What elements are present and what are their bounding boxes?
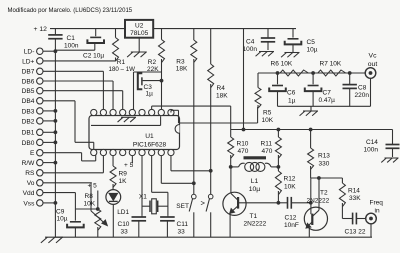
- svg-text:C8: C8: [358, 84, 367, 91]
- capacitor C1: [54, 29, 56, 35]
- node DB1 junction: [54, 130, 58, 134]
- svg-text:180 – 1W: 180 – 1W: [109, 66, 136, 73]
- wire +12 rail: [50, 28, 125, 30]
- wire Vo wiper: [90, 183, 92, 211]
- resistor R9: [112, 156, 114, 167]
- ground main: [45, 236, 63, 238]
- ground inside U1: [121, 116, 136, 118]
- svg-text:1µ: 1µ: [288, 97, 296, 104]
- svg-text:10µ: 10µ: [307, 47, 318, 54]
- svg-text:R10: R10: [237, 141, 249, 148]
- svg-text:DB4: DB4: [22, 98, 35, 105]
- wire SET link: [160, 156, 162, 184]
- wire R5 link: [170, 110, 172, 112]
- svg-text:>: >: [201, 198, 206, 207]
- resistor R13: [310, 130, 312, 149]
- node osc rail feed: [242, 128, 246, 132]
- svg-text:C11: C11: [177, 221, 189, 228]
- wire E route: [81, 153, 83, 161]
- svg-text:Vdd: Vdd: [23, 190, 35, 197]
- svg-text:Freq: Freq: [370, 199, 384, 206]
- wire RS route: [102, 156, 104, 173]
- svg-text:DB6: DB6: [22, 78, 35, 85]
- resistor R12: [277, 167, 279, 171]
- svg-text:10K: 10K: [284, 183, 296, 190]
- node SET junction: [192, 181, 196, 185]
- svg-text:R7 10K: R7 10K: [320, 60, 342, 67]
- capacitor C14: [392, 130, 394, 145]
- svg-text:18K: 18K: [216, 92, 228, 99]
- resistor R11: [277, 130, 279, 138]
- svg-text:18K: 18K: [176, 65, 188, 72]
- svg-text:+ 5: + 5: [88, 183, 98, 190]
- svg-text:X1: X1: [139, 193, 147, 200]
- svg-text:in: in: [375, 208, 380, 215]
- svg-text:2N2222: 2N2222: [307, 198, 330, 205]
- svg-text:DB1: DB1: [22, 130, 35, 137]
- wire DB6 drop: [112, 81, 114, 110]
- capacitor C7: [312, 73, 314, 84]
- node C3 junction: [160, 79, 164, 83]
- capacitor C9: [70, 221, 81, 223]
- svg-text:R9: R9: [119, 170, 128, 177]
- svg-text:T1: T1: [250, 213, 258, 220]
- svg-text:C12: C12: [285, 214, 297, 221]
- node T1 base junction: [277, 201, 281, 205]
- svg-text:LD+: LD+: [22, 58, 34, 65]
- resistor R5: [257, 73, 259, 88]
- node +5 pin stub: [131, 156, 133, 164]
- node DB2 junction: [54, 119, 58, 123]
- node DB3 junction: [54, 109, 58, 113]
- svg-text:R11: R11: [261, 141, 273, 148]
- wire U2 ground stem: [138, 38, 140, 52]
- svg-text:R/W: R/W: [22, 160, 36, 167]
- svg-text:L1: L1: [251, 178, 259, 185]
- resistor R8 pot: [95, 209, 101, 230]
- regulator U2: [125, 20, 153, 38]
- switch >: [210, 171, 212, 195]
- svg-text:C1: C1: [67, 35, 76, 42]
- ground C5: [285, 52, 300, 54]
- wire Vdd feed: [74, 193, 76, 221]
- wire OSC2: [151, 156, 153, 193]
- svg-text:10µ: 10µ: [57, 215, 68, 222]
- svg-text:R3: R3: [176, 58, 185, 65]
- capacitor C3: [138, 73, 143, 89]
- node DB0 junction: [54, 141, 58, 145]
- svg-text:C4: C4: [246, 38, 255, 45]
- ground Vc filter: [310, 106, 312, 111]
- node C7 junction: [311, 71, 315, 75]
- svg-text:DB7: DB7: [22, 69, 35, 76]
- capacitor C8: [349, 73, 351, 85]
- LED LD1: [106, 190, 121, 205]
- capacitor C12: [278, 202, 287, 204]
- wire osc rail: [231, 129, 393, 131]
- resistor R14: [341, 178, 343, 183]
- svg-text:R8: R8: [85, 193, 94, 200]
- svg-text:1K: 1K: [119, 178, 128, 185]
- svg-text:SET: SET: [176, 203, 189, 210]
- ground C4: [259, 51, 274, 53]
- wire DB5 drop: [122, 91, 124, 110]
- resistor R2: [161, 29, 163, 40]
- svg-text:470: 470: [238, 148, 249, 155]
- svg-text:RS: RS: [25, 170, 35, 177]
- transistor T1 2N2222: [223, 192, 246, 215]
- svg-text:DB3: DB3: [22, 108, 35, 115]
- svg-text:PIC16F628: PIC16F628: [133, 141, 167, 148]
- wire osc feed: [151, 106, 153, 110]
- node R/W junction: [54, 161, 58, 165]
- node LD- junction: [54, 49, 58, 53]
- svg-text:C2 10µ: C2 10µ: [83, 53, 104, 60]
- node C8 junction: [348, 71, 352, 75]
- wire DB4 route: [74, 101, 76, 143]
- wire MCLR: [134, 71, 162, 73]
- svg-text:10K: 10K: [262, 117, 274, 124]
- resistor R6: [280, 70, 308, 76]
- svg-text:Vss: Vss: [23, 200, 35, 207]
- svg-text:33: 33: [121, 228, 129, 235]
- transistor T2 2N2222: [304, 207, 327, 230]
- capacitor C6: [277, 73, 279, 84]
- svg-text:1µ: 1µ: [146, 91, 154, 98]
- svg-text:2N2222: 2N2222: [244, 221, 267, 228]
- wire +5 to osc rail: [243, 29, 245, 130]
- svg-text:78L05: 78L05: [130, 30, 148, 37]
- node L1 right: [277, 165, 281, 169]
- wire OSC1: [141, 156, 143, 216]
- capacitor C10: [141, 215, 143, 217]
- svg-text:R4: R4: [217, 85, 226, 92]
- wire Vc line: [258, 72, 365, 74]
- svg-text:C7: C7: [323, 90, 332, 97]
- inductor L1: [244, 156, 267, 159]
- node T2 base junction: [309, 201, 313, 205]
- svg-text:100n: 100n: [243, 46, 258, 53]
- svg-text:220n: 220n: [355, 92, 370, 99]
- resistor R3: [193, 29, 195, 40]
- node > junction: [209, 169, 213, 173]
- wire T2 bias: [311, 177, 343, 179]
- wire +5 rail: [153, 28, 296, 30]
- node Vss junction: [54, 201, 58, 205]
- svg-text:U1: U1: [145, 133, 154, 140]
- svg-text:330: 330: [319, 160, 330, 167]
- resistor R4: [210, 29, 212, 64]
- ground U2: [131, 51, 147, 53]
- svg-text:E: E: [30, 150, 35, 157]
- terminal Vc out: [370, 79, 372, 107]
- svg-text:Vo: Vo: [27, 180, 35, 187]
- svg-text:out: out: [368, 61, 378, 68]
- svg-text:R12: R12: [284, 175, 296, 182]
- svg-text:+ 5: + 5: [124, 162, 134, 169]
- svg-text:33K: 33K: [349, 195, 361, 202]
- switch SET: [193, 183, 195, 194]
- svg-text:DB0: DB0: [22, 140, 35, 147]
- svg-text:C10: C10: [118, 221, 130, 228]
- node +5 R8: [97, 191, 99, 210]
- svg-text:+ 12: + 12: [34, 26, 48, 33]
- svg-text:LD-: LD-: [24, 49, 35, 56]
- resistor R1: [115, 29, 117, 38]
- svg-text:DB2: DB2: [22, 118, 35, 125]
- svg-text:R5: R5: [263, 109, 272, 116]
- svg-text:10µ: 10µ: [249, 186, 261, 193]
- svg-text:C6: C6: [287, 89, 296, 96]
- capacitor C13: [342, 218, 352, 220]
- svg-text:R6 10K: R6 10K: [271, 60, 293, 67]
- wire Vc ground line: [278, 105, 371, 107]
- wire ground bus: [54, 51, 56, 237]
- svg-text:10nF: 10nF: [284, 222, 299, 229]
- svg-text:R13: R13: [318, 152, 330, 159]
- capacitor C2: [95, 29, 97, 37]
- svg-text:100n: 100n: [64, 43, 79, 50]
- terminal Freq in: [366, 213, 377, 224]
- svg-text:LD1: LD1: [117, 209, 129, 216]
- wire U1 internal: [91, 124, 161, 126]
- svg-text:U2: U2: [135, 22, 144, 29]
- svg-text:470: 470: [262, 148, 273, 155]
- resistor R10: [230, 130, 232, 138]
- node L1 left: [229, 165, 233, 169]
- svg-text:DB5: DB5: [22, 88, 35, 95]
- capacitor C5: [292, 29, 294, 38]
- svg-text:Vc: Vc: [369, 53, 378, 60]
- wire DB7 drop: [102, 71, 104, 109]
- crystal X1: [142, 205, 150, 207]
- U1 bottom pins: [91, 149, 97, 155]
- ground C14: [385, 157, 399, 159]
- svg-text:Modificado por Marcelo. (LU6DC: Modificado por Marcelo. (LU6DCS) 23/11/2…: [8, 8, 133, 14]
- wire ground rail: [55, 236, 372, 238]
- resistor R7: [318, 70, 346, 76]
- svg-text:33: 33: [178, 228, 186, 235]
- capacitor C11: [167, 215, 169, 217]
- op-amp U1 PIC16F628 body: [89, 116, 180, 150]
- svg-text:100n: 100n: [364, 147, 379, 154]
- node R11 top: [277, 128, 281, 132]
- wire > link: [170, 156, 172, 171]
- capacitor C4: [267, 29, 269, 38]
- svg-text:10K: 10K: [84, 201, 96, 208]
- svg-text:T2: T2: [320, 189, 328, 196]
- node R13 top: [309, 128, 313, 132]
- svg-text:C13 22: C13 22: [345, 229, 366, 236]
- svg-text:C5: C5: [307, 39, 316, 46]
- node C6 junction: [276, 71, 280, 75]
- svg-text:0.47µ: 0.47µ: [319, 97, 336, 104]
- U1 top pins: [91, 109, 97, 115]
- wire R8 top link: [75, 208, 97, 210]
- svg-text:R14: R14: [348, 187, 360, 194]
- svg-text:C14: C14: [366, 139, 378, 146]
- node T2 collector junction: [317, 176, 321, 180]
